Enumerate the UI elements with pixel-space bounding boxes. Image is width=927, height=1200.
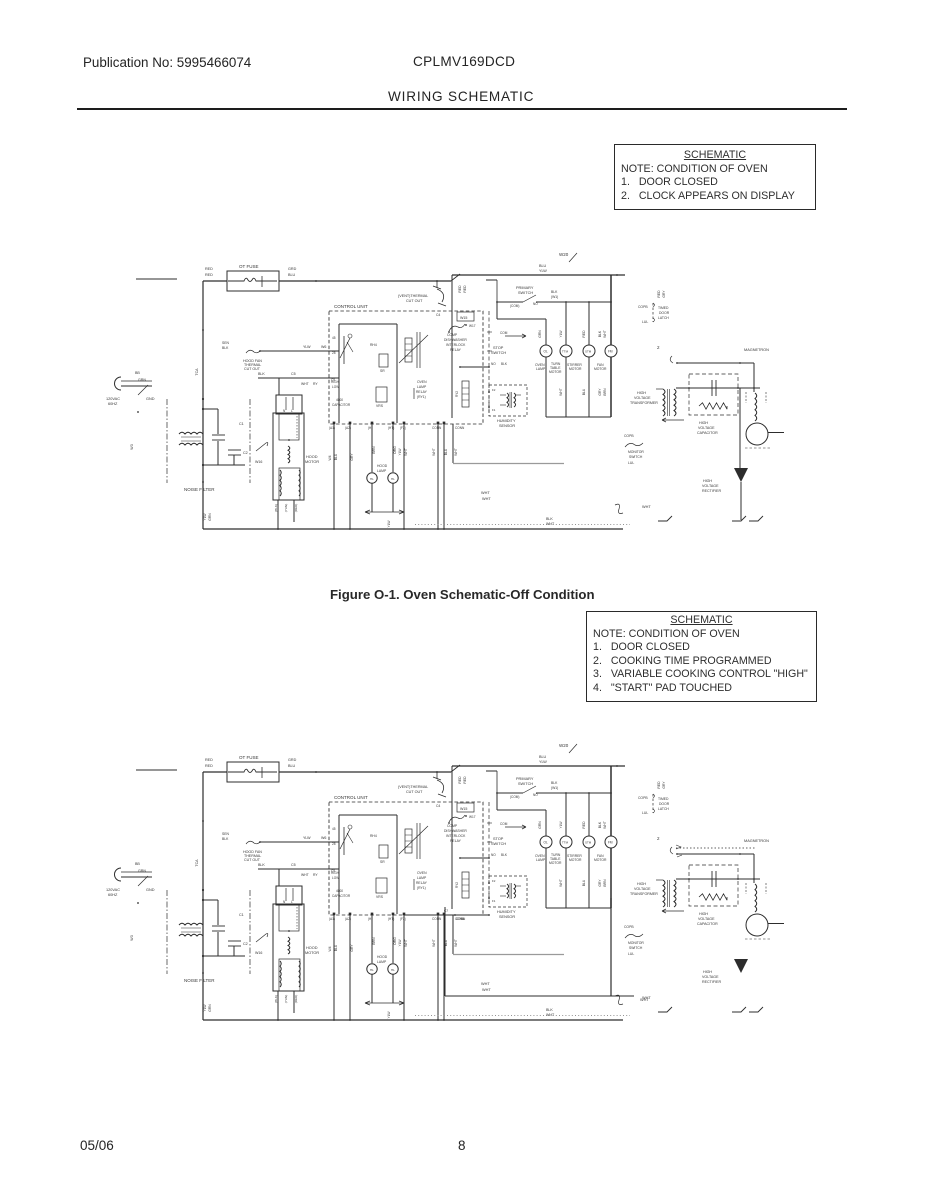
capacitor C3 plate bbox=[711, 380, 713, 396]
label BLK bbox=[551, 781, 558, 785]
hood motor lower winding bbox=[279, 468, 300, 500]
svg-text:TIMED: TIMED bbox=[658, 306, 669, 310]
terminal pad bbox=[371, 422, 374, 425]
wire stub bbox=[136, 769, 177, 771]
schematic figure O-1 (off condition) bbox=[106, 252, 784, 530]
svg-text:LAMP: LAMP bbox=[377, 960, 387, 964]
svg-text:PRIMARY: PRIMARY bbox=[516, 777, 534, 781]
label RED bbox=[294, 995, 298, 1003]
svg-text:WHT: WHT bbox=[546, 1013, 555, 1017]
svg-text:RED: RED bbox=[205, 267, 213, 271]
label BLU bbox=[539, 755, 547, 759]
svg-text:CONN: CONN bbox=[432, 917, 442, 921]
svg-text:BLK: BLK bbox=[551, 781, 558, 785]
svg-text:W3: W3 bbox=[130, 444, 134, 449]
arrow to stop switch bbox=[505, 334, 526, 338]
svg-text:BLU: BLU bbox=[539, 264, 547, 268]
junction bbox=[588, 301, 590, 303]
label GRN bbox=[538, 821, 542, 829]
wire stub bbox=[136, 278, 177, 280]
wire bbox=[121, 385, 152, 387]
terminal label bbox=[329, 917, 335, 921]
wire bottom bus bbox=[203, 1019, 623, 1021]
svg-text:RELAY: RELAY bbox=[416, 881, 428, 885]
wire H bbox=[371, 424, 373, 472]
junction bbox=[488, 914, 490, 916]
svg-text:TTM: TTM bbox=[562, 841, 569, 845]
svg-text:OL: OL bbox=[544, 841, 548, 845]
svg-text:MOTOR: MOTOR bbox=[569, 367, 582, 371]
label TCA bbox=[195, 859, 199, 867]
svg-text:WHT: WHT bbox=[642, 505, 651, 509]
svg-text:(COM): (COM) bbox=[510, 304, 519, 308]
svg-text:RECTIFIER: RECTIFIER bbox=[702, 489, 721, 493]
ground bbox=[658, 516, 672, 521]
svg-text:RED: RED bbox=[463, 776, 467, 784]
svg-text:BLK: BLK bbox=[501, 853, 508, 857]
relay RY1 armature bbox=[399, 335, 428, 363]
svg-text:NOISE FILTER: NOISE FILTER bbox=[184, 978, 215, 983]
label BLK bbox=[501, 853, 508, 857]
svg-text:CUT OUT: CUT OUT bbox=[406, 299, 423, 303]
wire top mid bbox=[279, 280, 451, 282]
transformer T1 core bbox=[669, 389, 671, 416]
svg-text:BLU: BLU bbox=[288, 273, 296, 277]
svg-text:BB: BB bbox=[135, 371, 140, 375]
svg-text:YLW: YLW bbox=[398, 448, 402, 456]
svg-text:COMP: COMP bbox=[447, 333, 458, 337]
wire H bbox=[371, 915, 373, 963]
label HUMIDITY bbox=[497, 910, 516, 914]
svg-text:C5: C5 bbox=[331, 869, 335, 873]
svg-text:STOP: STOP bbox=[493, 837, 504, 841]
wire right bus lower bbox=[610, 357, 612, 417]
svg-text:GRN: GRN bbox=[208, 1004, 212, 1012]
svg-text:RED: RED bbox=[657, 290, 661, 298]
label HL bbox=[370, 968, 374, 972]
svg-text:WHT: WHT bbox=[404, 448, 408, 456]
svg-text:WHT: WHT bbox=[301, 873, 309, 877]
junction bbox=[403, 528, 405, 530]
svg-text:WHT: WHT bbox=[482, 497, 491, 501]
label YLW bbox=[284, 995, 288, 1003]
svg-text:HIGH: HIGH bbox=[637, 391, 646, 395]
svg-text:DOOR: DOOR bbox=[659, 311, 670, 315]
label YLW bbox=[559, 821, 563, 829]
relay RY1 hatch bbox=[405, 846, 412, 848]
svg-text:LAMP: LAMP bbox=[377, 469, 387, 473]
svg-text:RH4: RH4 bbox=[370, 834, 377, 838]
noise filter box left bbox=[166, 890, 168, 974]
label RED bbox=[205, 764, 213, 768]
wire interlock bbox=[451, 275, 453, 418]
junction bbox=[739, 853, 741, 855]
svg-text:WHT: WHT bbox=[640, 998, 649, 1002]
wire bbox=[121, 876, 152, 878]
svg-text:VOLTAGE: VOLTAGE bbox=[634, 396, 651, 400]
svg-text:YLW: YLW bbox=[387, 520, 391, 528]
svg-text:W15: W15 bbox=[460, 316, 467, 320]
label TTM bbox=[562, 841, 569, 845]
svg-text:GRY: GRY bbox=[662, 290, 666, 298]
magnetron dash bbox=[765, 883, 767, 894]
winding hatch bbox=[280, 961, 281, 987]
label DOOR bbox=[659, 802, 670, 806]
relay RY1 coil bbox=[405, 829, 412, 853]
wire bbox=[497, 809, 546, 811]
svg-text:C2: C2 bbox=[243, 451, 248, 455]
svg-text:WHT: WHT bbox=[454, 448, 458, 456]
junction bbox=[137, 902, 139, 904]
junction bbox=[488, 857, 490, 859]
wire right bus upper bbox=[610, 766, 612, 836]
wire bbox=[277, 500, 279, 529]
svg-text:(RY1): (RY1) bbox=[417, 886, 426, 890]
label RED bbox=[205, 758, 213, 762]
svg-text:RED: RED bbox=[657, 781, 661, 789]
junction bbox=[616, 274, 618, 276]
wire bbox=[371, 974, 373, 1003]
winding hatch bbox=[280, 470, 281, 496]
label COM bbox=[510, 795, 519, 799]
wire HT bbox=[392, 424, 394, 472]
terminal label bbox=[388, 917, 394, 921]
core L1 bbox=[181, 440, 201, 442]
svg-text:F2: F2 bbox=[492, 388, 496, 392]
transformer T1 core bbox=[667, 880, 669, 907]
svg-text:BLU: BLU bbox=[288, 764, 296, 768]
junction bbox=[137, 411, 139, 413]
svg-text:GRY: GRY bbox=[350, 944, 354, 952]
junction bbox=[277, 1019, 279, 1021]
fuse F1 element bbox=[228, 278, 277, 281]
wire bbox=[293, 500, 295, 522]
label W4 bbox=[328, 946, 332, 951]
wire bbox=[203, 899, 218, 901]
timed door latch dashed bbox=[652, 303, 654, 322]
diode D1 bbox=[734, 468, 748, 482]
label COM bbox=[500, 822, 508, 826]
junction bbox=[488, 406, 490, 408]
junction bbox=[448, 331, 450, 333]
wire bbox=[496, 793, 498, 810]
svg-text:WHT: WHT bbox=[559, 879, 563, 887]
svg-text:LOW: LOW bbox=[332, 876, 339, 880]
label W15 bbox=[460, 807, 467, 811]
label TRANSFORMER bbox=[630, 892, 658, 896]
svg-text:(W1): (W1) bbox=[551, 295, 558, 299]
label INTERLOCK bbox=[446, 834, 466, 838]
svg-text:WHT: WHT bbox=[559, 388, 563, 396]
label YLW bbox=[539, 760, 547, 764]
label SWITCH bbox=[491, 842, 506, 846]
junction bbox=[688, 878, 690, 880]
inductor L1 winding bbox=[179, 923, 203, 925]
label STIRRER bbox=[567, 854, 582, 858]
footer page number bbox=[458, 1138, 466, 1153]
svg-text:COPB: COPB bbox=[624, 925, 634, 929]
winding hatch bbox=[299, 470, 300, 496]
hood motor coil bbox=[288, 446, 290, 463]
label W6 bbox=[321, 836, 326, 840]
label GRY bbox=[350, 944, 354, 952]
junction bbox=[288, 439, 290, 441]
svg-text:GRN: GRN bbox=[138, 869, 146, 873]
junction bbox=[202, 464, 204, 466]
junction bbox=[202, 481, 204, 483]
hood lamp HL2 bbox=[388, 964, 398, 974]
svg-text:YLW: YLW bbox=[559, 330, 563, 338]
capacitor C1 lead lower bbox=[217, 441, 219, 465]
wire black bbox=[258, 377, 339, 379]
junction bbox=[739, 362, 741, 364]
svg-text:VOLTAGE: VOLTAGE bbox=[634, 887, 651, 891]
svg-text:CUT OUT: CUT OUT bbox=[244, 858, 261, 862]
svg-text:HIGH: HIGH bbox=[703, 970, 712, 974]
wire bbox=[588, 848, 590, 908]
connector W15 box bbox=[457, 312, 474, 321]
label RELAY bbox=[450, 839, 462, 843]
primary switch blade bbox=[523, 786, 536, 793]
svg-text:BB: BB bbox=[135, 862, 140, 866]
svg-text:C1: C1 bbox=[239, 913, 244, 917]
svg-text:LUL: LUL bbox=[642, 320, 648, 324]
control unit inner right bbox=[396, 815, 398, 914]
label CAPACITOR bbox=[332, 894, 351, 898]
motor box bottom bbox=[546, 416, 611, 418]
svg-text:BLU: BLU bbox=[334, 453, 338, 460]
svg-text:SR: SR bbox=[380, 369, 385, 373]
svg-text:RED: RED bbox=[582, 821, 586, 829]
wire bbox=[293, 991, 295, 1013]
junction bbox=[202, 329, 204, 331]
junction bbox=[202, 955, 204, 957]
label COPB bbox=[624, 925, 634, 929]
oven lamp OL bbox=[540, 345, 552, 357]
wire no bbox=[460, 366, 489, 368]
label BLU bbox=[582, 879, 586, 886]
svg-text:C7: C7 bbox=[444, 909, 448, 913]
label WHT bbox=[482, 988, 491, 992]
svg-text:YLW: YLW bbox=[539, 269, 547, 273]
noise filter box right bbox=[249, 399, 251, 483]
svg-text:MOTOR: MOTOR bbox=[549, 861, 562, 865]
svg-text:60HZ: 60HZ bbox=[108, 402, 118, 406]
wire right bus lower bbox=[610, 848, 612, 908]
terminal pad bbox=[371, 913, 374, 916]
svg-text:W16: W16 bbox=[255, 951, 262, 955]
svg-text:RY2: RY2 bbox=[455, 391, 459, 397]
svg-text:ORG: ORG bbox=[393, 446, 397, 454]
hood fan thermal cutout switch bbox=[246, 350, 260, 353]
svg-text:BRN: BRN bbox=[372, 937, 376, 945]
wire bbox=[371, 483, 373, 512]
junction bbox=[202, 820, 204, 822]
junction bbox=[496, 301, 498, 303]
label BLU bbox=[288, 764, 296, 768]
label MOTOR bbox=[549, 861, 562, 865]
svg-text:C5: C5 bbox=[331, 378, 335, 382]
switch W16 bbox=[256, 442, 268, 451]
power plug P1 bbox=[115, 868, 122, 881]
svg-text:W20: W20 bbox=[559, 252, 569, 257]
wire monitor bbox=[677, 362, 754, 364]
terminal pad bbox=[403, 422, 406, 425]
svg-text:RY2: RY2 bbox=[455, 882, 459, 888]
svg-text:C5: C5 bbox=[291, 863, 296, 867]
junction bbox=[459, 366, 461, 368]
terminal label bbox=[432, 917, 442, 921]
label BLK bbox=[222, 837, 229, 841]
label WHT bbox=[301, 873, 309, 877]
svg-text:COPB: COPB bbox=[624, 434, 634, 438]
wire bbox=[496, 771, 498, 793]
hood fan thermal cutout switch bbox=[246, 841, 260, 844]
hood relay box bbox=[276, 395, 302, 414]
magnetron dash bbox=[745, 392, 747, 403]
wire right bus upper bbox=[610, 275, 612, 345]
wire A2 bbox=[349, 915, 351, 1020]
svg-text:GRN: GRN bbox=[538, 330, 542, 338]
HV capacitor dashed box bbox=[689, 374, 738, 415]
junction bbox=[436, 280, 438, 282]
label WHT bbox=[642, 996, 651, 1000]
capacitor C2 plate bbox=[228, 940, 241, 942]
label C5 bbox=[291, 863, 296, 867]
wire bbox=[497, 792, 523, 794]
relay RY1 hatch bbox=[405, 355, 412, 357]
inductor L1 winding lower bbox=[179, 934, 203, 936]
ground bbox=[749, 1007, 763, 1012]
ground bbox=[732, 516, 746, 521]
svg-text:MOTOR: MOTOR bbox=[305, 460, 319, 464]
core L1 bbox=[181, 931, 201, 933]
svg-text:LATCH: LATCH bbox=[658, 807, 669, 811]
svg-text:YLW: YLW bbox=[303, 345, 311, 349]
fuse F1 terminal bbox=[261, 276, 263, 287]
ground bbox=[749, 516, 763, 521]
label C1 bbox=[239, 913, 244, 917]
label CUT OUT bbox=[406, 790, 423, 794]
junction bbox=[465, 324, 467, 326]
junction bbox=[610, 792, 612, 794]
triac Q1 case bbox=[348, 825, 352, 829]
junction bbox=[443, 1019, 445, 1021]
svg-text:HL: HL bbox=[391, 477, 395, 481]
switch W16 bbox=[256, 933, 268, 942]
svg-text:GRN: GRN bbox=[538, 821, 542, 829]
label ORG bbox=[393, 937, 397, 945]
svg-text:YLW: YLW bbox=[203, 513, 207, 521]
humidity sensor winding bbox=[514, 884, 516, 898]
terminal label bbox=[368, 917, 372, 921]
humidity sensor lead bbox=[500, 895, 506, 897]
label YLW bbox=[387, 1011, 391, 1019]
wire black bbox=[258, 868, 339, 870]
svg-text:CAPACITOR: CAPACITOR bbox=[697, 922, 718, 926]
svg-text:GRY: GRY bbox=[598, 388, 602, 396]
svg-text:MONITOR: MONITOR bbox=[628, 941, 644, 945]
svg-text:INTERLOCK: INTERLOCK bbox=[446, 834, 466, 838]
relay RY1 core bbox=[416, 823, 418, 859]
label BB bbox=[135, 862, 140, 866]
humidity sensor core bbox=[509, 392, 511, 408]
transformer T1 arrow bbox=[662, 418, 684, 422]
terminal pad bbox=[349, 422, 352, 425]
label YLW bbox=[203, 1004, 207, 1012]
capacitor C2 lead bbox=[233, 946, 235, 956]
junction bbox=[315, 280, 317, 282]
terminal label bbox=[345, 917, 351, 921]
label BLK bbox=[274, 995, 278, 1003]
triac Q1 bbox=[343, 336, 345, 364]
core L1 bbox=[181, 927, 201, 929]
svg-text:HOOD: HOOD bbox=[377, 464, 388, 468]
schematic (on condition) bbox=[106, 743, 784, 1021]
svg-text:L: L bbox=[291, 409, 293, 413]
wire conn bbox=[443, 915, 445, 1020]
svg-text:F2: F2 bbox=[492, 879, 496, 883]
monitor switch hook bbox=[670, 847, 673, 854]
label MOTOR bbox=[569, 858, 582, 862]
capacitor C2 plate bbox=[228, 449, 241, 451]
wire bbox=[753, 363, 755, 392]
svg-text:SWITCH: SWITCH bbox=[629, 455, 643, 459]
magnetron dash bbox=[765, 392, 767, 403]
svg-text:LAMP: LAMP bbox=[417, 385, 427, 389]
svg-text:(VENT)THERMAL: (VENT)THERMAL bbox=[398, 294, 428, 298]
humidity sensor core bbox=[509, 883, 511, 899]
svg-text:RELAY: RELAY bbox=[450, 348, 462, 352]
control unit inner top bbox=[339, 814, 397, 816]
wire bbox=[497, 301, 523, 303]
label GND bbox=[146, 888, 155, 892]
svg-text:CAPACITOR: CAPACITOR bbox=[332, 894, 351, 898]
label YLW bbox=[303, 836, 311, 840]
interlock switch bbox=[449, 815, 465, 822]
triac Q1 gate bbox=[340, 338, 350, 358]
svg-text:WHT: WHT bbox=[301, 382, 309, 386]
svg-text:4000: 4000 bbox=[336, 398, 343, 402]
junction bbox=[349, 1019, 351, 1021]
label 120VAC bbox=[106, 888, 120, 892]
junction bbox=[437, 528, 439, 530]
humidity sensor lead bbox=[500, 404, 506, 406]
svg-text:COPB: COPB bbox=[638, 305, 648, 309]
svg-text:DISHWASHER: DISHWASHER bbox=[444, 338, 467, 342]
junction bbox=[488, 391, 490, 393]
label BRN bbox=[372, 937, 376, 945]
svg-text:W17: W17 bbox=[469, 815, 476, 819]
hood motor outer box bbox=[273, 413, 304, 500]
svg-text:HL: HL bbox=[370, 477, 374, 481]
relay RY2 coil bbox=[462, 381, 469, 407]
label RED bbox=[657, 781, 661, 789]
label MAGNETRON bbox=[744, 839, 769, 843]
wire A1 bbox=[333, 424, 335, 529]
triac Q1 lead bbox=[347, 833, 353, 843]
svg-text:SEN: SEN bbox=[222, 341, 230, 345]
svg-text:2: 2 bbox=[657, 345, 660, 350]
label NOISE FILTER bbox=[184, 978, 215, 983]
junction bbox=[443, 528, 445, 530]
capacitor C3 plate bbox=[711, 871, 713, 887]
latch hook bbox=[653, 794, 655, 813]
svg-text:W17: W17 bbox=[469, 324, 476, 328]
svg-text:LAMP: LAMP bbox=[417, 876, 427, 880]
relay RY2 coil bbox=[462, 872, 469, 898]
svg-text:BLU: BLU bbox=[444, 448, 448, 455]
